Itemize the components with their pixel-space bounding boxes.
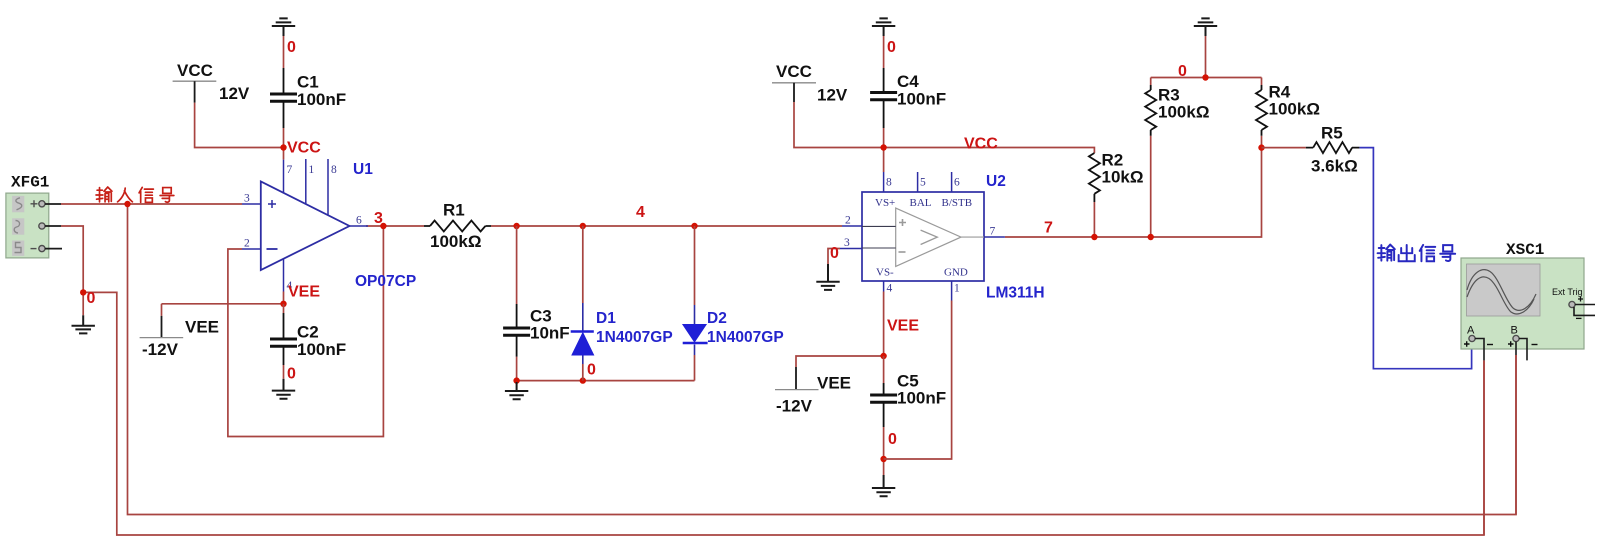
node VEE right junction [880,353,886,359]
wire C2 bottom lead red part [283,365,285,379]
D1 value label [596,329,673,346]
wire R4 bottom lead red part [1261,136,1263,148]
wire VEE supply stub red part [161,304,163,316]
wire C4 lower lead to VCC rail and U2 pin8 [883,128,885,172]
node D1 bottom junction [580,377,586,383]
wire C1 lower lead to VCC node and U1 pin7 [283,128,285,160]
resistor R5 [1306,124,1360,176]
svg-text:7: 7 [287,164,293,176]
svg-text:0: 0 [888,431,897,448]
svg-text:7: 7 [1044,220,1053,237]
U2 reference label [986,173,1006,190]
svg-text:U2: U2 [986,173,1006,190]
wire ground node down to ground symbol [82,292,84,315]
net label VCC right rail [964,136,998,153]
ground below XFG1 [72,315,95,333]
wire net 4 from R1 to U2 pin2 [491,225,842,227]
ground above C4 [872,18,895,36]
svg-text:R5: R5 [1321,124,1343,143]
net label VEE at U2 pin4 [887,318,919,335]
svg-text:C4: C4 [897,72,919,91]
wire VEE rail left [162,303,284,305]
svg-text:OP07CP: OP07CP [355,273,416,290]
svg-text:100kΩ: 100kΩ [1269,100,1320,119]
svg-text:1: 1 [309,164,315,176]
net label VEE at U1 pin4 [288,284,320,301]
svg-text:0: 0 [587,362,596,379]
svg-text:C1: C1 [297,73,319,92]
svg-text:2: 2 [845,215,851,227]
wire U2 pin4 down to VEE node [883,292,885,357]
net label 0 at XFG1 ground node [87,290,96,307]
wire C4 upper lead to top ground [883,36,885,68]
net label 4 [636,204,645,221]
wire D1 bottom lead [582,364,584,381]
svg-text:100nF: 100nF [297,340,346,359]
net label 0 at diode bottom rail [587,362,596,379]
wire D1 top lead [582,226,584,303]
node R2 bottom junction [1091,234,1097,240]
svg-text:10nF: 10nF [530,324,570,343]
VCC supply left [173,61,250,103]
node junction on input net [124,201,130,207]
svg-text:8: 8 [331,164,337,176]
wire net 7 from U2 pin7 to R2 R3 R4 [1005,148,1262,237]
svg-text:100nF: 100nF [897,389,946,408]
svg-text:U1: U1 [353,161,373,178]
svg-text:5: 5 [920,177,926,189]
wire output signal blue from R5 to scope A plus [1359,148,1471,369]
node output-signal text label (Chinese, drawn as vector strokes) [1378,245,1456,262]
wire C3 bottom lead to node 0 [516,357,518,381]
node input-signal text label (Chinese, drawn as vector strokes) [96,187,174,202]
VCC supply right [772,62,848,105]
ground below C5 [872,475,895,496]
wire XFG1 common terminal to ground node 0 [61,226,83,292]
svg-text:XFG1: XFG1 [11,174,49,192]
svg-text:1: 1 [954,283,960,295]
wire D2 top lead [694,226,696,305]
wire VCC supply right to rail [794,102,1094,153]
node C3 ground junction [513,377,519,383]
svg-text:R1: R1 [443,201,465,220]
svg-text:B: B [1511,325,1518,337]
svg-text:100kΩ: 100kΩ [430,232,481,251]
net label 0 above C4 [887,39,896,56]
wire C3 top lead [516,226,518,304]
svg-text:12V: 12V [219,84,250,103]
wire VCC supply left to VCC rail [195,103,284,148]
VEE supply left [140,316,219,359]
wire C5 ground node to U2 pin1 [884,301,952,460]
net label 0 below C5 [888,431,897,448]
wire C5 top lead [883,356,885,383]
net label 0 at U2 pin3 [830,245,839,262]
svg-text:VEE: VEE [288,284,320,301]
node R3 bottom junction [1148,234,1154,240]
svg-text:8: 8 [886,177,892,189]
VEE supply right [775,367,851,416]
svg-text:B/STB: B/STB [942,197,973,209]
svg-text:1N4007GP: 1N4007GP [707,329,784,346]
net label 3 at U1 output [374,210,383,227]
svg-text:1N4007GP: 1N4007GP [596,329,673,346]
net label VCC left rail [287,140,321,157]
wire C5 bottom lead to node 0 [883,427,885,475]
svg-text:10kΩ: 10kΩ [1102,168,1144,187]
svg-text:6: 6 [954,177,960,189]
svg-text:VEE: VEE [887,318,919,335]
wire scope B plus red lead [1515,355,1517,515]
svg-text:3: 3 [244,193,250,205]
svg-text:3.6kΩ: 3.6kΩ [1311,157,1358,176]
node VCC right junction [880,144,886,150]
node C3 top junction [513,223,519,229]
net label 0 below C2 [287,366,296,383]
op-amp U1 [242,159,368,292]
net label 0 above R3 [1178,63,1187,80]
node C5 ground junction [880,456,886,462]
svg-text:3: 3 [844,237,850,249]
net label 7 at U2 output [1044,220,1053,237]
svg-text:0: 0 [287,39,296,56]
resistor R4 [1256,83,1320,136]
svg-text:0: 0 [887,39,896,56]
wire ground node to scope A minus along bottom [83,292,1484,535]
svg-text:Ext Trig: Ext Trig [1552,287,1583,297]
svg-text:VCC: VCC [776,62,812,81]
U1 value label OP07CP [355,273,416,290]
wire from input-net junction down and along bottom to scope B plus [128,204,1517,515]
wire input signal net from XFG1 plus terminal to U1 pin3 [61,203,242,205]
capacitor C1 [270,68,346,128]
capacitor C4 [870,68,946,128]
svg-text:0: 0 [830,245,839,262]
node junction 0 below XFG1 [80,289,86,295]
resistor R1 [424,201,491,252]
wire C1 upper lead to top ground [283,36,285,68]
svg-text:A: A [1467,325,1475,337]
ground above C1 [272,18,295,36]
svg-text:4: 4 [636,204,645,221]
svg-text:GND: GND [944,267,968,279]
svg-text:D1: D1 [596,310,616,327]
svg-text:-12V: -12V [776,397,813,416]
wire U2 pin3 to ground [828,249,840,265]
svg-text:C2: C2 [297,323,319,342]
resistor R2 [1089,151,1144,203]
capacitor C2 [270,313,346,365]
svg-text:VCC: VCC [964,136,998,153]
svg-text:4: 4 [887,283,893,295]
node VEE left junction [280,301,286,307]
svg-text:VEE: VEE [185,318,219,337]
svg-text:6: 6 [356,215,362,227]
U1 reference label [353,161,373,178]
diode D1 [571,303,594,364]
svg-text:D2: D2 [707,310,727,327]
comparator U2 LM311H [840,172,1005,301]
node output junction net 3 [380,223,386,229]
ground below C3 [505,382,528,399]
svg-text:100nF: 100nF [297,90,346,109]
svg-text:12V: 12V [817,86,848,105]
svg-text:-12V: -12V [142,340,179,359]
U2 value label LM311H [986,285,1045,302]
node R4 R5 junction [1258,144,1264,150]
wire D2 bottom lead [694,355,696,381]
svg-text:0: 0 [287,366,296,383]
ground at U2 pin3 [816,264,839,290]
ground above R3 R4 rail [1194,18,1217,36]
svg-text:2: 2 [244,238,250,250]
ground below C2 [272,379,295,399]
svg-text:XSC1: XSC1 [1506,241,1544,259]
svg-text:100nF: 100nF [897,90,946,109]
wire top rail R3 to R4 with ground tap [1151,36,1262,85]
function generator XFG1 [6,174,62,258]
capacitor C5 [870,372,946,428]
node D1 top junction [580,223,586,229]
svg-text:100kΩ: 100kΩ [1158,103,1209,122]
node D2 top junction [691,223,697,229]
svg-text:VS+: VS+ [875,197,895,209]
wire U1 pin4 to VEE node [283,292,285,304]
wire U1 output net 3 to R1 [366,225,424,227]
svg-text:LM311H: LM311H [986,285,1045,302]
node top rail ground junction [1202,74,1208,80]
svg-text:VEE: VEE [817,374,851,393]
svg-text:0: 0 [1178,63,1187,80]
svg-text:VCC: VCC [287,140,321,157]
resistor R3 [1145,85,1209,136]
capacitor C3 [503,304,570,357]
D1 reference label [596,310,616,327]
svg-text:7: 7 [990,226,996,238]
oscilloscope XSC1 [1461,241,1595,360]
svg-text:BAL: BAL [910,197,932,209]
wire scope A minus red lead [1483,360,1485,535]
wire bottom rail of C3 D1 D2 [517,380,695,382]
diode D2 [683,305,708,355]
node VCC left junction [280,144,286,150]
svg-text:0: 0 [87,290,96,307]
wire R3 bottom lead red part [1150,136,1152,237]
wire R2 bottom lead red part [1093,202,1095,237]
svg-text:3: 3 [374,210,383,227]
wire U1 feedback loop output to inverting input [228,226,384,437]
wire VEE node to right VEE supply [796,356,884,367]
wire C2 top lead [283,304,285,313]
wire R4 junction to R5 left [1262,147,1306,149]
D2 value label [707,329,784,346]
svg-text:VS-: VS- [876,267,894,279]
D2 reference label [707,310,727,327]
svg-text:VCC: VCC [177,61,213,80]
net label 0 above C1 [287,39,296,56]
